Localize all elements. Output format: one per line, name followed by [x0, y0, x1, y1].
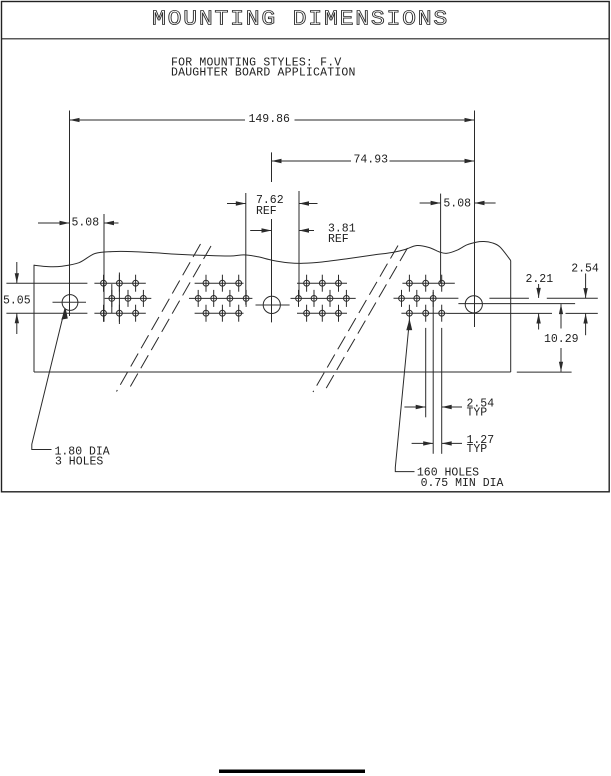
- pin hole G2 row1: [227, 296, 233, 302]
- arrowhead 2.54 right top: [583, 288, 587, 298]
- pin hole G4 row0: [407, 280, 413, 286]
- board bottom edge: [34, 371, 511, 373]
- board right edge: [510, 261, 512, 373]
- svg-text:5.08: 5.08: [443, 198, 471, 211]
- arrowhead 10.29 bottom: [559, 362, 563, 372]
- arrowhead 2.54 TYP left: [416, 405, 426, 409]
- pin hole G1 row0: [133, 280, 139, 286]
- pin hole G3 row1: [327, 296, 333, 302]
- pin hole G4 row2: [423, 310, 429, 316]
- svg-text:TYP: TYP: [467, 407, 488, 420]
- bottom black bar: [219, 770, 365, 774]
- svg-text:149.86: 149.86: [249, 113, 291, 126]
- break line pair A: [117, 244, 201, 392]
- dimension 149.86 line: [70, 119, 246, 121]
- group 4 row lines: [402, 282, 454, 284]
- arrowhead 5.08 left dim left: [60, 221, 70, 225]
- frame border: [2, 2, 610, 492]
- mounting hole 3 (1.80 DIA): [465, 296, 482, 313]
- board left edge: [33, 265, 35, 372]
- dimension 5.05 arrow shafts: [16, 262, 18, 283]
- group 2 row lines: [195, 282, 244, 284]
- svg-text:REF: REF: [256, 205, 277, 218]
- dimension 5.08 left arrow tails: [38, 222, 70, 224]
- pin hole G4 row0: [439, 280, 445, 286]
- pin hole G3 row0: [336, 280, 342, 286]
- svg-text:10.29: 10.29: [544, 333, 579, 346]
- arrowhead 2.21 top: [536, 288, 540, 298]
- svg-text:3 HOLES: 3 HOLES: [55, 456, 103, 469]
- dimension 74.93 line: [272, 160, 352, 162]
- group 1 vertical connector lines: [111, 284, 113, 313]
- title divider line: [2, 38, 610, 40]
- right margin row line L3: [447, 312, 552, 314]
- break line pair B: [313, 246, 398, 393]
- leader line 160 HOLES callout: [395, 321, 414, 472]
- board bottom extension line right: [517, 371, 572, 373]
- arrowhead 1.27 TYP left: [423, 441, 433, 445]
- pin hole G1 row1: [109, 296, 115, 302]
- arrowhead 5.08 left dim right: [104, 221, 114, 225]
- dimension 5.08 right arrow tails: [420, 202, 441, 204]
- mounting hole 2 horizontal centerline: [256, 304, 290, 306]
- pin hole G3 row1: [296, 296, 302, 302]
- svg-text:TYP: TYP: [467, 443, 488, 456]
- svg-text:MOUNTING DIMENSIONS: MOUNTING DIMENSIONS: [152, 7, 449, 31]
- pin hole G1 row2: [133, 310, 139, 316]
- svg-text:REF: REF: [328, 233, 349, 246]
- pin hole G2 row2: [220, 310, 226, 316]
- left margin row line top (5.05 ref) through group 1: [6, 282, 87, 284]
- arrowhead 2.54 right bottom: [583, 314, 587, 324]
- dimension 5.08 right extension line: [440, 194, 442, 284]
- pin hole G4 row1: [414, 296, 420, 302]
- arrowhead 149.86 right: [465, 118, 475, 122]
- dimension 1.27 TYP arrow tails: [412, 442, 434, 444]
- pin hole G2 row0: [236, 280, 242, 286]
- pin hole G3 row1: [311, 296, 317, 302]
- pin hole G2 row2: [236, 310, 242, 316]
- dimension 10.29 arrow shafts: [560, 304, 562, 328]
- pin hole G4 row1: [399, 296, 405, 302]
- pin hole G2 row0: [203, 280, 209, 286]
- pin hole G4 row1: [430, 296, 436, 302]
- mounting hole 1 horizontal centerline: [53, 301, 87, 303]
- right margin hole 3 centerline L2: [458, 303, 575, 305]
- dimension 7.62 arrow tails: [227, 203, 246, 205]
- left margin row line bottom (5.05 ref) through group 1: [6, 312, 87, 314]
- arrowhead leader 160 HOLES: [406, 319, 412, 331]
- pin hole G2 row2: [203, 310, 209, 316]
- dimension 149.86 extension line left (hole 1 center): [69, 111, 71, 317]
- pin hole G4 row2: [439, 310, 445, 316]
- pin hole G2 row0: [220, 280, 226, 286]
- svg-text:2.21: 2.21: [526, 273, 554, 286]
- arrowhead 3.81 left: [262, 228, 272, 232]
- pin hole G3 row2: [304, 310, 310, 316]
- arrowhead 74.93 right: [465, 159, 475, 163]
- pin hole G2 row1: [195, 296, 201, 302]
- arrowhead 5.05 bottom: [15, 313, 19, 323]
- arrowhead 149.86 left: [70, 118, 80, 122]
- svg-text:2.54: 2.54: [571, 263, 599, 276]
- svg-text:74.93: 74.93: [354, 154, 389, 167]
- dimension 2.21 arrow shafts: [538, 284, 540, 298]
- mounting hole 1 (1.80 DIA): [62, 295, 78, 311]
- arrowhead leader 1.80 DIA: [61, 308, 68, 319]
- mounting hole 2 (1.80 DIA): [263, 296, 280, 313]
- pin hole G3 row2: [319, 310, 325, 316]
- arrowhead 74.93 left: [272, 159, 282, 163]
- dimension 5.08 left extension line: [103, 214, 105, 322]
- svg-text:0.75 MIN DIA: 0.75 MIN DIA: [421, 477, 504, 490]
- mounting hole 2 vertical centerline: [271, 219, 273, 322]
- pin hole G1 row2: [117, 310, 123, 316]
- arrowhead 1.27 TYP right: [442, 441, 452, 445]
- pin hole G4 row2: [407, 310, 413, 316]
- pin hole G2 row1: [211, 296, 217, 302]
- dimension 2.54 right arrow shafts: [585, 274, 587, 299]
- arrowhead 2.21 bottom: [536, 314, 540, 324]
- right margin row line L1: [547, 297, 598, 299]
- pin hole G1 row1: [125, 296, 131, 302]
- dimension 74.93 extension line (hole 2 center top): [271, 152, 273, 182]
- arrowhead 5.05 top: [15, 273, 19, 283]
- pin hole G1 row2: [101, 310, 107, 316]
- arrowhead 5.08 right dim right: [475, 201, 485, 205]
- arrowhead 3.81 right: [299, 228, 309, 232]
- dimension 3.81 arrow tails: [250, 230, 271, 232]
- arrowhead 7.62 right: [299, 201, 309, 205]
- pin hole G3 row0: [319, 280, 325, 286]
- arrowhead 2.54 TYP right: [442, 405, 452, 409]
- svg-text:5.08: 5.08: [72, 217, 100, 230]
- pin hole G2 row1: [243, 296, 249, 302]
- dimension 7.62 extension lines: [245, 193, 247, 305]
- pin hole G3 row1: [344, 296, 350, 302]
- pin hole G3 row0: [304, 280, 310, 286]
- dimension 2.54 TYP arrow tails: [404, 406, 425, 408]
- pin hole G3 row2: [336, 310, 342, 316]
- group 3 row lines: [297, 282, 347, 284]
- board wavy top edge: [34, 241, 511, 266]
- dimension 149.86 extension line right (hole 3 center): [474, 111, 476, 328]
- pin hole G1 row1: [141, 296, 147, 302]
- svg-text:DAUGHTER BOARD APPLICATION: DAUGHTER BOARD APPLICATION: [171, 67, 356, 80]
- pin hole G4 row0: [423, 280, 429, 286]
- leader line 1.80 DIA callout: [32, 309, 65, 450]
- arrowhead 10.29 top: [559, 304, 563, 314]
- arrowhead 5.08 right dim left: [431, 201, 441, 205]
- group 4 vertical connector / extension lines below: [432, 292, 434, 454]
- arrowhead 7.62 left: [236, 201, 246, 205]
- svg-text:5.05: 5.05: [3, 294, 31, 307]
- pin hole G1 row0: [101, 280, 107, 286]
- pin hole G1 row0: [117, 280, 123, 286]
- group 1 middle row line: [105, 297, 152, 299]
